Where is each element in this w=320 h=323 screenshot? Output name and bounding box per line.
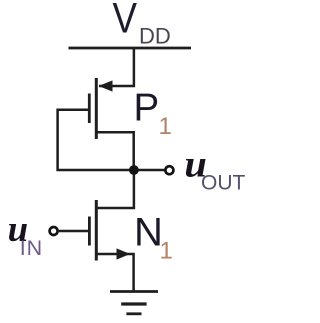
svg-text:OUT: OUT [201, 172, 246, 195]
svg-text:1: 1 [160, 238, 173, 265]
svg-text:1: 1 [159, 113, 172, 140]
svg-text:IN: IN [20, 236, 43, 260]
svg-text:DD: DD [139, 24, 171, 49]
svg-text:V: V [113, 0, 138, 43]
svg-text:P: P [134, 87, 160, 130]
